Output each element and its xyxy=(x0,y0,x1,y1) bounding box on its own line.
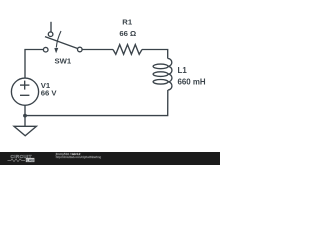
svg-text:66 V: 66 V xyxy=(41,89,58,98)
switch SW1 right terminal xyxy=(78,47,83,52)
inductor L1 loop 1 xyxy=(153,64,168,69)
switch SW1 actuation arrow xyxy=(56,31,61,48)
V1 plus sign xyxy=(20,84,29,86)
inductor L1 loop 2 xyxy=(153,72,168,77)
svg-text:66 Ω: 66 Ω xyxy=(119,29,136,38)
wire resistor to top-right corner xyxy=(142,50,168,59)
wire V1 bottom to junction xyxy=(24,105,26,115)
switch SW1 blade xyxy=(45,37,78,49)
watermark credit line 2 url xyxy=(56,155,102,159)
svg-text:LAB: LAB xyxy=(27,158,35,162)
inductor L1 loop 3 xyxy=(153,80,168,85)
svg-text:R1: R1 xyxy=(122,18,133,27)
wire switch to resistor xyxy=(82,49,113,51)
switch SW1 top stub xyxy=(50,22,52,32)
V1 minus sign xyxy=(20,94,29,96)
svg-text:SW1: SW1 xyxy=(54,57,71,66)
wire junction to ground xyxy=(24,116,26,127)
switch SW1 left terminal xyxy=(43,47,48,52)
svg-text:L1: L1 xyxy=(178,66,188,75)
svg-text:660 mH: 660 mH xyxy=(178,78,206,87)
switch SW1 arrowhead xyxy=(54,48,58,53)
junction node xyxy=(23,114,27,118)
watermark logo resistor squiggle xyxy=(8,159,26,162)
watermark credit line 1 xyxy=(55,152,81,156)
switch SW1 top terminal xyxy=(48,32,53,37)
wire inductor to bottom rail xyxy=(25,90,168,116)
watermark bar xyxy=(0,152,220,165)
wire top-left riser xyxy=(25,50,43,79)
resistor R1 xyxy=(113,45,142,55)
svg-text:http://circuitlab.com/c/g6ud62: http://circuitlab.com/c/g6ud62w/tmg xyxy=(56,155,102,159)
ground xyxy=(14,126,36,136)
voltage source V1 circle xyxy=(11,78,38,105)
inductor L1 coil connecting spiral xyxy=(168,58,172,90)
watermark logo LAB box xyxy=(26,158,35,162)
